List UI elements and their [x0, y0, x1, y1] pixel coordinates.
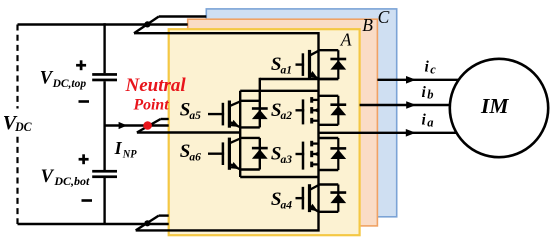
svg-text:A: A — [340, 30, 352, 50]
transistor S_a4 (IGBT) — [296, 197, 305, 199]
svg-text:IM: IM — [480, 94, 509, 118]
wire S_a3 cell top node — [319, 137, 339, 139]
svg-text:a2: a2 — [281, 110, 293, 122]
transistor S_a1 (IGBT) — [296, 63, 305, 65]
wire S_a1 cell top node — [319, 49, 339, 51]
wire phase b output — [360, 104, 451, 106]
svg-text:a6: a6 — [189, 152, 201, 164]
wire dashed DC source — [16, 25, 18, 225]
wire bottom DC rail (layer B level) — [18, 223, 169, 225]
wire DC-link capacitor branch lower — [103, 178, 105, 224]
wire top rail layer A + phase-leg column + bottom rail layer A — [134, 33, 319, 230]
svg-text:c: c — [430, 62, 436, 76]
transistor S_a2 (MOSFET) — [296, 109, 305, 111]
wire S_a2 cell bottom node — [319, 124, 339, 126]
wire S_a5 bottom node — [240, 126, 260, 128]
wire S_a4 cell bottom node — [319, 211, 339, 213]
wire S_a3 cell bottom node — [319, 169, 339, 171]
label - of C_bot — [82, 199, 93, 202]
node bottom bus junction — [144, 220, 150, 226]
svg-text:a1: a1 — [281, 65, 293, 77]
wire S_a6 bottom node — [240, 168, 260, 170]
node top bus junction — [144, 21, 150, 27]
svg-text:NP: NP — [122, 147, 137, 161]
transistor S_a5 (IGBT) — [208, 113, 224, 115]
wire phase c output — [377, 79, 458, 81]
svg-text:DC,top: DC,top — [52, 78, 87, 90]
induction machine IM — [450, 59, 548, 157]
wire left clamp column — [239, 91, 241, 177]
wire S_a6 top node — [240, 137, 260, 139]
wire DC-link capacitor branch middle — [103, 81, 105, 170]
diode D_a5 antiparallel — [252, 107, 268, 110]
arrow i_b — [406, 101, 416, 109]
wire P1 node to left column — [240, 90, 318, 92]
capacitor C_bot (V_DC,bot) — [92, 170, 117, 173]
wire S_a5 top node — [240, 100, 260, 102]
svg-text:a5: a5 — [189, 110, 201, 122]
svg-text:C: C — [378, 7, 390, 27]
svg-text:V: V — [41, 167, 55, 187]
svg-text:i: i — [422, 84, 427, 101]
diode D_a3 antiparallel — [330, 147, 346, 150]
wire S_a1 emitter node extension — [260, 78, 339, 80]
svg-text:Point: Point — [134, 97, 170, 114]
svg-text:B: B — [362, 15, 373, 35]
wire S_a6 diode branch — [259, 138, 261, 170]
wire top DC rail stub into layer C — [159, 15, 207, 17]
wire S_a2 cell top node — [319, 95, 339, 97]
label - of C_top — [79, 100, 90, 103]
arrow i_a — [406, 129, 416, 137]
phase-leg A background box — [169, 29, 360, 235]
wire DC-link capacitor branch upper — [103, 23, 105, 73]
transistor S_a6 (IGBT) — [208, 152, 224, 154]
svg-text:a3: a3 — [281, 154, 293, 166]
wire neutral stub (layer B/C) — [161, 118, 169, 120]
svg-text:Neutral: Neutral — [125, 75, 187, 96]
wire S_a3 diode branch — [337, 138, 339, 170]
label + of C_top — [76, 64, 86, 67]
wire S_a4 diode branch — [337, 185, 339, 212]
svg-text:i: i — [425, 59, 430, 76]
phase-leg B background box — [188, 19, 378, 226]
svg-text:DC: DC — [14, 120, 32, 134]
svg-text:i: i — [422, 112, 427, 129]
svg-text:a4: a4 — [281, 199, 293, 211]
wire phase a output — [319, 132, 457, 134]
node Neutral Point (red) — [143, 121, 152, 130]
svg-text:I: I — [114, 138, 123, 158]
wire bottom bus slant jumper — [136, 216, 159, 231]
svg-text:DC,bot: DC,bot — [53, 176, 90, 188]
wire S_a1 cell bottom node — [319, 78, 339, 80]
svg-text:b: b — [427, 88, 433, 102]
wire top DC rail (layer B level) — [18, 23, 188, 25]
wire neutral slant jumper — [137, 119, 161, 133]
diode D_a2 antiparallel — [330, 103, 346, 106]
wire top bus slant jumper — [134, 17, 159, 34]
wire bottom DC rail stub into layer C — [159, 214, 169, 216]
svg-text:a: a — [427, 115, 433, 129]
wire neutral to S_a5/S_a6 midpoint — [137, 131, 240, 133]
wire neutral point horizontal — [105, 124, 169, 126]
label + of C_bot — [79, 158, 89, 161]
diode D_a4 antiparallel — [330, 191, 346, 194]
wire S_a1 diode branch — [337, 50, 339, 79]
transistor S_a3 (MOSFET) — [296, 153, 305, 155]
wire S_a5 diode drop — [259, 78, 261, 128]
diode D_a6 antiparallel — [252, 147, 268, 150]
diode D_a1 antiparallel — [330, 58, 346, 61]
arrow I_NP on neutral wire — [119, 122, 128, 129]
capacitor C_top (V_DC,top) — [92, 73, 117, 76]
wire S_a4 cell top node — [319, 183, 339, 185]
wire P2 node to left column — [240, 176, 318, 178]
wire S_a2 diode branch — [337, 96, 339, 125]
phase-leg C background box — [206, 9, 396, 217]
arrow i_c — [406, 76, 416, 84]
gap in dashed line behind V_DC label — [0, 109, 26, 134]
